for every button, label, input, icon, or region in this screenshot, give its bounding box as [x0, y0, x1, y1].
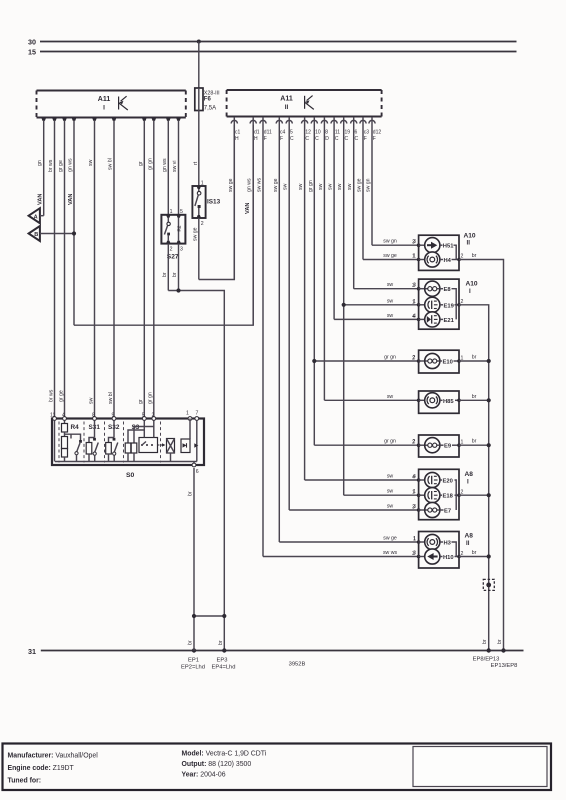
- lamp unit E9 box: [412, 435, 464, 457]
- svg-text:2: 2: [201, 221, 204, 227]
- svg-text:sw: sw: [337, 183, 343, 190]
- svg-text:br ws: br ws: [48, 159, 54, 172]
- svg-text:VAN: VAN: [245, 203, 251, 214]
- A11 II control-unit symbol: [305, 96, 314, 110]
- wire br A8II to bus: [459, 550, 491, 644]
- svg-text:gr gn: gr gn: [308, 180, 314, 192]
- svg-text:I: I: [467, 478, 469, 485]
- svg-text:A11: A11: [98, 96, 111, 103]
- diode unit in S0: [181, 419, 198, 464]
- wire 31 rail: [28, 647, 524, 656]
- node junctions on rail 31: [192, 648, 196, 652]
- svg-text:A: A: [34, 214, 38, 220]
- resistor R4 network: [55, 420, 82, 461]
- svg-text:c3: c3: [364, 130, 370, 136]
- svg-text:gn ws: gn ws: [247, 178, 253, 192]
- svg-text:10: 10: [315, 130, 321, 136]
- svg-text:1: 1: [412, 254, 415, 260]
- svg-text:H51: H51: [443, 244, 454, 250]
- svg-text:gr gn: gr gn: [148, 392, 154, 404]
- svg-text:Output: 88 (120) 3500: Output: 88 (120) 3500: [182, 761, 252, 768]
- op unit A11 II box: [227, 90, 382, 117]
- svg-text:sw ws: sw ws: [383, 550, 398, 556]
- svg-text:d12: d12: [373, 130, 382, 136]
- lamp unit A10 I box: [419, 279, 478, 329]
- svg-text:VAN: VAN: [38, 194, 44, 205]
- heater E19: [417, 297, 461, 312]
- indicator lamp H51: [417, 238, 456, 260]
- svg-text:Engine code: Z19DT: Engine code: Z19DT: [8, 765, 75, 772]
- svg-text:1: 1: [413, 537, 416, 543]
- svg-text:sw: sw: [328, 183, 334, 190]
- wire gr gn A11I to S0 pin2: [147, 121, 154, 419]
- svg-text:31: 31: [28, 647, 36, 656]
- node junction B wire: [72, 231, 76, 235]
- svg-text:br: br: [482, 639, 488, 644]
- switch S32: [106, 420, 120, 461]
- switch assembly S0 box: [52, 419, 204, 480]
- svg-text:II: II: [467, 239, 471, 246]
- svg-text:EP13/EP8: EP13/EP8: [491, 663, 518, 669]
- wire A8I pin2 to bus: [459, 493, 491, 497]
- svg-text:E21: E21: [444, 318, 455, 324]
- svg-text:R4: R4: [71, 424, 80, 431]
- svg-text:sw: sw: [88, 397, 94, 404]
- svg-text:sw ge: sw ge: [228, 178, 234, 192]
- lamp H3: [417, 534, 456, 556]
- svg-text:2: 2: [170, 247, 173, 253]
- svg-text:sw: sw: [387, 313, 394, 319]
- svg-text:EP1: EP1: [188, 658, 199, 664]
- svg-text:sw: sw: [387, 489, 394, 495]
- wire sw bl A11I to S0 pin9: [108, 121, 115, 419]
- svg-text:sw ws: sw ws: [257, 177, 263, 192]
- wire gn ws A11I / node B / to A11II pin d1: [68, 121, 254, 325]
- svg-text:gr ge: gr ge: [58, 160, 64, 172]
- svg-text:3: 3: [180, 247, 183, 253]
- wire sw vi A11I to S27 pin5: [172, 121, 179, 215]
- wire sw pin 6 to E8: [347, 117, 418, 289]
- svg-text:D: D: [325, 136, 329, 142]
- footer data table: [3, 744, 552, 791]
- wire br S27 pin2 down: [162, 244, 168, 291]
- wire gr A11I to S0 pin5: [138, 121, 145, 419]
- svg-text:A8: A8: [465, 471, 474, 478]
- svg-text:F: F: [280, 136, 283, 142]
- node B triangle: [29, 226, 74, 241]
- wire sw pin 19 to E19 and E18: [337, 117, 418, 495]
- svg-text:8: 8: [92, 413, 95, 419]
- node junction S27 pins join: [176, 288, 180, 292]
- svg-text:2: 2: [152, 413, 155, 419]
- svg-text:sw: sw: [387, 474, 394, 480]
- svg-text:1: 1: [201, 181, 204, 187]
- svg-text:br: br: [472, 355, 477, 361]
- svg-text:F6: F6: [204, 97, 212, 103]
- lamp E7: [412, 475, 464, 518]
- switch S31: [86, 420, 100, 461]
- svg-text:br: br: [162, 272, 168, 277]
- svg-text:br: br: [218, 640, 224, 645]
- svg-text:A8: A8: [465, 532, 474, 539]
- svg-text:7,5A: 7,5A: [204, 106, 216, 112]
- svg-text:d1: d1: [254, 130, 260, 136]
- svg-text:15: 15: [28, 48, 36, 57]
- svg-text:sw: sw: [318, 183, 324, 190]
- svg-text:4: 4: [62, 413, 65, 419]
- svg-text:E19: E19: [444, 303, 455, 309]
- svg-text:H: H: [254, 136, 258, 142]
- svg-text:br: br: [188, 640, 194, 645]
- svg-text:6: 6: [355, 130, 358, 136]
- svg-text:1: 1: [412, 490, 415, 496]
- wire br E9 to bus: [459, 439, 491, 448]
- svg-text:C: C: [335, 136, 339, 142]
- svg-text:H: H: [235, 136, 239, 142]
- svg-text:sw ge: sw ge: [383, 253, 397, 259]
- svg-text:sw ge: sw ge: [273, 178, 279, 192]
- svg-text:30: 30: [28, 38, 36, 47]
- ground point labels EP: [181, 657, 517, 671]
- svg-text:sw ge: sw ge: [383, 536, 397, 542]
- S0 internal bottom rail: [55, 461, 197, 463]
- svg-text:S0: S0: [126, 472, 135, 479]
- svg-text:C: C: [345, 136, 349, 142]
- svg-text:4: 4: [412, 475, 415, 481]
- svg-text:A10: A10: [466, 281, 478, 288]
- switch IS13: [192, 181, 220, 228]
- wire sw pin 12 to E20: [298, 117, 419, 480]
- svg-text:gn ws: gn ws: [162, 158, 168, 172]
- svg-text:C: C: [305, 136, 309, 142]
- svg-text:sw: sw: [387, 298, 394, 304]
- wire sw ws pin d11 to H10: [257, 117, 419, 557]
- svg-text:br: br: [472, 253, 477, 259]
- svg-text:2: 2: [412, 356, 415, 362]
- svg-text:E10: E10: [443, 360, 453, 366]
- svg-text:A10: A10: [464, 232, 476, 239]
- svg-text:sw: sw: [283, 183, 289, 190]
- lamp unit A10 II box: [419, 232, 476, 270]
- svg-text:E18: E18: [443, 494, 454, 500]
- svg-text:Model: Vectra-C 1,9D CDTi: Model: Vectra-C 1,9D CDTi: [182, 751, 267, 758]
- heater E21: [412, 283, 464, 327]
- svg-text:sw ge: sw ge: [192, 227, 198, 241]
- wire br H85 to bus: [459, 394, 491, 403]
- svg-text:19: 19: [345, 130, 351, 136]
- wire link between ground drops: [192, 614, 227, 645]
- svg-text:rt: rt: [193, 161, 199, 165]
- svg-text:Year: 2004-06: Year: 2004-06: [182, 772, 226, 779]
- svg-text:3: 3: [412, 551, 415, 557]
- svg-text:2: 2: [412, 440, 415, 446]
- wire br ws A11I to S0 pin11: [48, 121, 55, 419]
- relay K in S0: [167, 439, 175, 462]
- lamp unit H85 box: [417, 391, 461, 413]
- svg-text:R2: R2: [177, 225, 182, 231]
- wire gn ws VAN pin d1: [245, 117, 253, 325]
- wire S27 ground run to EP3: [168, 291, 224, 651]
- wire rail30 to fuse: [198, 42, 200, 89]
- svg-text:gr gn: gr gn: [147, 158, 153, 170]
- svg-text:sw: sw: [88, 159, 94, 166]
- svg-text:H3: H3: [444, 541, 452, 547]
- wire gn A11I to node A: [37, 121, 44, 216]
- wire sw pin 8 to H85: [318, 117, 419, 400]
- svg-text:EP2=Lhd: EP2=Lhd: [181, 665, 205, 671]
- svg-text:d11: d11: [264, 130, 272, 136]
- svg-text:Tuned for:: Tuned for:: [8, 778, 42, 785]
- svg-text:gr ge: gr ge: [58, 390, 64, 402]
- wire sw ge IS13 to A11II pin c1: [192, 125, 234, 280]
- svg-text:H4: H4: [444, 258, 452, 264]
- svg-text:sw: sw: [298, 183, 304, 190]
- A11 I control-unit symbol: [119, 96, 128, 110]
- svg-text:br: br: [188, 491, 194, 496]
- A11 II pin sockets: [231, 120, 375, 123]
- svg-text:c4: c4: [280, 130, 286, 136]
- svg-text:E7: E7: [444, 509, 451, 515]
- wire gr gn pin 10 to E10 and E9: [308, 117, 419, 445]
- svg-text:6: 6: [196, 469, 199, 475]
- svg-text:1: 1: [186, 411, 189, 417]
- wire br S0 pin6 to rail 31: [188, 468, 195, 651]
- A11 II pin id labels: [235, 130, 381, 143]
- svg-text:F: F: [364, 136, 367, 142]
- node A triangle: [29, 208, 44, 223]
- svg-text:br: br: [472, 439, 477, 445]
- svg-text:gr gn: gr gn: [384, 355, 396, 361]
- wire sw ge pin c4 to H3: [273, 117, 419, 542]
- svg-text:gr: gr: [138, 399, 144, 404]
- svg-text:EP4=Lhd: EP4=Lhd: [211, 665, 235, 671]
- svg-text:5: 5: [180, 209, 183, 215]
- A11 I pin bubbles: [41, 118, 181, 121]
- node junction on rail 30: [197, 40, 201, 44]
- svg-text:br ws: br ws: [48, 389, 54, 402]
- svg-text:3952B: 3952B: [289, 662, 306, 668]
- svg-text:gn ws: gn ws: [68, 158, 74, 172]
- svg-text:E8: E8: [444, 287, 452, 293]
- wire 15 rail: [28, 48, 517, 57]
- heater E20: [417, 472, 456, 510]
- svg-text:H10: H10: [443, 555, 454, 561]
- svg-text:C: C: [290, 136, 294, 142]
- svg-text:4: 4: [412, 314, 415, 320]
- svg-text:9: 9: [112, 413, 115, 419]
- svg-text:c1: c1: [235, 130, 241, 136]
- indicator lamp H10: [412, 537, 464, 565]
- svg-text:EP3: EP3: [217, 658, 228, 664]
- svg-text:E20: E20: [443, 479, 453, 485]
- svg-text:C: C: [315, 136, 319, 142]
- switch S27: [161, 209, 185, 261]
- heater unit A8 I box: [419, 469, 474, 519]
- svg-text:11: 11: [335, 130, 340, 136]
- wire br A10II to ground: [459, 253, 504, 651]
- svg-text:C: C: [355, 136, 359, 142]
- svg-text:3: 3: [412, 283, 415, 289]
- S0 internal separators: [59, 422, 161, 463]
- wire gn ws A11I to S27 pin1: [162, 121, 169, 215]
- svg-text:sw: sw: [387, 282, 394, 288]
- op unit A11 I box: [37, 91, 186, 118]
- svg-text:F: F: [264, 136, 267, 142]
- svg-text:br: br: [472, 550, 477, 556]
- svg-text:gr: gr: [138, 161, 144, 166]
- svg-text:5: 5: [290, 130, 293, 136]
- svg-text:Manufacturer: Vauxhall/Opel: Manufacturer: Vauxhall/Opel: [8, 753, 99, 760]
- svg-text:br: br: [472, 394, 477, 400]
- wire sw pin 5 to E7: [283, 117, 419, 510]
- wire fuse to IS13, rt: [193, 111, 199, 187]
- svg-text:A11: A11: [280, 96, 293, 103]
- lamp H4: [412, 240, 464, 267]
- wire A10I pin2 to ground bus: [459, 305, 489, 651]
- svg-text:I: I: [103, 105, 105, 112]
- svg-text:II: II: [466, 540, 470, 547]
- S0 pin bubbles and numbers: [50, 411, 199, 476]
- svg-text:H85: H85: [443, 399, 454, 405]
- svg-text:5: 5: [142, 413, 145, 419]
- svg-text:1: 1: [170, 209, 173, 215]
- svg-text:gr gn: gr gn: [384, 439, 396, 445]
- svg-text:IS13: IS13: [207, 199, 221, 206]
- svg-text:8: 8: [325, 130, 328, 136]
- wire br S27 pin3 down: [172, 244, 178, 291]
- svg-text:12: 12: [305, 130, 311, 136]
- svg-text:gn: gn: [37, 160, 43, 166]
- svg-text:VAN: VAN: [68, 194, 74, 205]
- wire 30 rail: [28, 38, 517, 47]
- svg-text:sw: sw: [387, 504, 394, 510]
- svg-text:I: I: [469, 288, 471, 295]
- svg-text:11: 11: [50, 413, 55, 419]
- lamp unit E10 box: [412, 350, 464, 373]
- lamp unit A8 II box: [419, 532, 474, 569]
- lamp E8: [417, 281, 456, 319]
- wire gr ge A11I to S0 pin4: [58, 121, 65, 419]
- wire sw ge pin c3 to H4: [357, 117, 419, 260]
- heater E18: [417, 488, 461, 503]
- svg-text:br: br: [497, 639, 503, 644]
- svg-text:sw vi: sw vi: [172, 160, 178, 172]
- svg-text:sw bl: sw bl: [108, 392, 114, 404]
- wire sw ge pin c1: [228, 117, 235, 280]
- wire sw pin 11 to E21: [328, 117, 419, 319]
- svg-text:br: br: [172, 272, 178, 277]
- svg-text:7: 7: [196, 411, 199, 417]
- svg-text:sw ge: sw ge: [357, 178, 363, 192]
- svg-text:3: 3: [412, 240, 415, 246]
- svg-text:sw bl: sw bl: [108, 158, 114, 170]
- svg-text:B: B: [34, 232, 38, 238]
- svg-text:1: 1: [412, 299, 415, 305]
- svg-text:3: 3: [412, 505, 415, 511]
- svg-text:sw gn: sw gn: [366, 178, 372, 192]
- svg-text:sw: sw: [387, 394, 394, 400]
- fuse F6: [195, 88, 220, 112]
- wire sw gn pin d12 to H51: [366, 117, 419, 245]
- svg-text:F: F: [373, 136, 376, 142]
- multi switch S3: [125, 420, 165, 461]
- wire sw A11I to S0 pin8: [88, 121, 95, 419]
- svg-text:sw gn: sw gn: [383, 239, 397, 245]
- svg-text:E9: E9: [444, 444, 452, 450]
- wire br E10 to bus: [459, 355, 491, 364]
- splice connector on ground bus: [483, 579, 494, 590]
- svg-text:sw: sw: [347, 183, 353, 190]
- svg-text:EP8/EP13: EP8/EP13: [473, 657, 500, 663]
- svg-text:II: II: [285, 104, 289, 111]
